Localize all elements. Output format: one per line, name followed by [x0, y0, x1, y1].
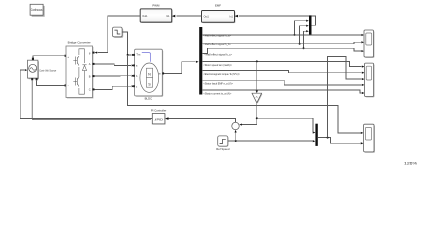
bridge converter block	[66, 46, 93, 98]
svg-text:Continuous: Continuous	[31, 8, 43, 12]
svg-text:PI Controller: PI Controller	[151, 108, 167, 112]
motor left port stubs	[133, 54, 135, 56]
wire source + to bridge	[33, 56, 66, 58]
wire bridge C to motor c	[95, 86, 132, 89]
bridge IGBT arm icon	[78, 49, 80, 95]
wire hall effect signal h_c to scope1	[202, 48, 361, 53]
svg-text:126%: 126%	[404, 162, 417, 166]
wire hall effect signal h_a to scope1	[202, 34, 361, 36]
svg-text:<Hall effect signal h_a>: <Hall effect signal h_a>	[203, 33, 231, 37]
wire ref speed to mux3 in2 with branch to sum	[228, 140, 313, 142]
wire sum output to PI controller input	[167, 119, 236, 123]
svg-text:Tm: Tm	[136, 52, 141, 56]
svg-text:B: B	[89, 74, 91, 78]
svg-text:-: -	[68, 83, 69, 87]
svg-text:PWM: PWM	[152, 3, 160, 7]
svg-text:Out1: Out1	[204, 16, 210, 19]
wire step to motor Tm with branch	[122, 32, 132, 55]
wire source - to bridge	[37, 80, 66, 85]
svg-text:EMF: EMF	[215, 3, 221, 7]
svg-text:<Stator current is_a (A)>: <Stator current is_a (A)>	[203, 91, 231, 95]
svg-text:<Rotor speed wm (rad/s)>: <Rotor speed wm (rad/s)>	[203, 63, 232, 67]
wire gain output down	[256, 103, 258, 125]
wire bridge A to motor a	[95, 64, 132, 66]
wire stator back EMF to scope2 in4	[202, 80, 361, 85]
svg-text:ƒPID: ƒPID	[154, 117, 164, 121]
wire bridge B to motor b	[95, 75, 132, 77]
wire EMF out to PWM in	[177, 15, 202, 17]
wire load torque branch to scope3	[128, 55, 361, 133]
wire PI controller output to source control input	[20, 70, 152, 119]
wire h_c branch to mux1 in3	[304, 31, 307, 48]
wire motor m to bus selector	[164, 62, 195, 74]
wire mux1 out to EMF in	[239, 16, 316, 25]
wire PWM out to bridge gate	[98, 16, 141, 53]
controlled voltage source block	[28, 58, 40, 81]
wire ref speed branch up to sum	[235, 133, 237, 141]
wire electromagnetic torque to scope2 in2	[202, 71, 361, 73]
svg-text:<Hall effect signal h_c>: <Hall effect signal h_c>	[204, 53, 232, 57]
powergui block Continuous	[30, 4, 45, 16]
gain block (down)	[252, 93, 262, 103]
svg-text:C: C	[89, 88, 91, 92]
subsystem PWM	[140, 9, 172, 23]
sum block	[232, 122, 239, 129]
wire source bottom-left down-right	[32, 80, 151, 119]
wire h_a branch to mux1 in1	[295, 21, 307, 35]
wire stator current to scope2 in5	[202, 90, 361, 93]
motor m output stub	[162, 72, 164, 74]
svg-text:<Stator back EMF e_a (V)>: <Stator back EMF e_a (V)>	[203, 82, 233, 86]
wire speed to mux3 in1	[257, 118, 313, 132]
scope2 motor signals	[365, 63, 375, 97]
bridge right port stubs	[93, 52, 95, 54]
BLDC motor block	[135, 49, 164, 97]
svg-text:Contr Volt Source: Contr Volt Source	[39, 68, 56, 72]
svg-text:A: A	[89, 62, 91, 66]
wire h_b branch to mux1 in2	[300, 26, 306, 44]
ref speed step block	[218, 136, 229, 147]
svg-text:N: N	[148, 73, 151, 77]
scope3 speed compare	[364, 124, 375, 153]
scope1 hall signals	[364, 30, 374, 58]
wire rotor speed down to gain	[256, 61, 258, 90]
PI controller block	[152, 114, 165, 125]
junction rotor speed branch	[256, 60, 258, 62]
svg-text:Ref Speed: Ref Speed	[216, 147, 230, 151]
wire mux3 branch up to scope2 in3	[328, 56, 362, 137]
mux3 speeds	[315, 124, 317, 146]
svg-text:<Electromagnetic torque Te (N*: <Electromagnetic torque Te (N*m)>	[203, 72, 240, 76]
svg-text:BLDC: BLDC	[145, 97, 152, 101]
svg-text:Bridge Converter: Bridge Converter	[68, 41, 91, 45]
wire hall effect signal h_b to scope1	[202, 42, 361, 43]
svg-text:m: m	[159, 73, 161, 76]
svg-text:Out1: Out1	[142, 15, 148, 18]
subsystem EMF	[202, 11, 236, 24]
mux1 hall signals	[309, 15, 312, 35]
wire mux3 output to scope3 in2	[318, 138, 361, 144]
wire rotor speed to scope2 in1	[202, 61, 361, 66]
wire feedback to sum	[242, 124, 257, 126]
bus selector	[199, 27, 202, 95]
step block load torque	[113, 27, 124, 38]
svg-text:-K-: -K-	[255, 96, 258, 98]
svg-text:<Hall effect signal h_b>: <Hall effect signal h_b>	[203, 42, 231, 46]
